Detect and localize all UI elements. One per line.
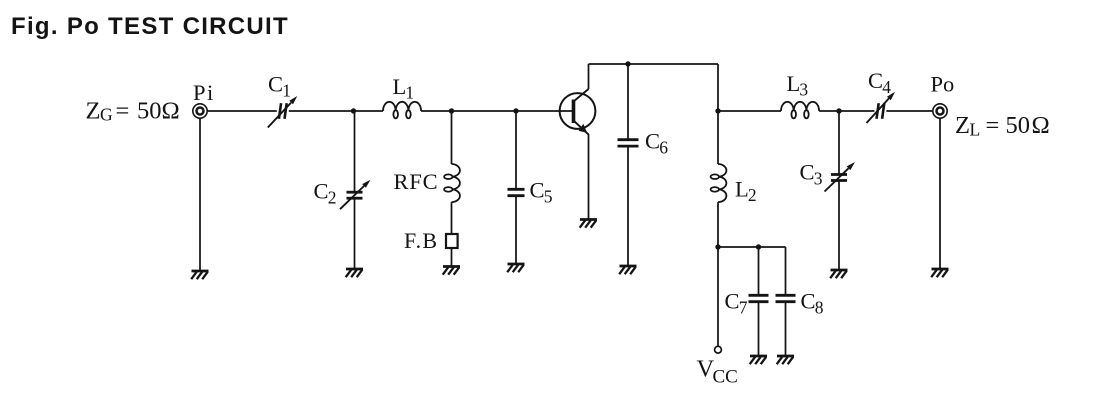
- svg-text:Fig. Po TEST CIRCUIT: Fig. Po TEST CIRCUIT: [11, 13, 289, 40]
- svg-text:L: L: [970, 120, 981, 140]
- svg-text:C: C: [868, 68, 883, 93]
- svg-text:50: 50: [1006, 112, 1031, 139]
- svg-text:3: 3: [814, 169, 823, 189]
- svg-text:C: C: [314, 179, 329, 204]
- svg-text:F.B: F.B: [404, 228, 438, 253]
- svg-text:C: C: [725, 289, 740, 314]
- svg-text:G: G: [100, 105, 113, 125]
- svg-text:C: C: [530, 178, 545, 203]
- svg-text:Ω: Ω: [162, 98, 180, 125]
- svg-text:2: 2: [328, 188, 337, 208]
- svg-text:L: L: [787, 71, 801, 96]
- svg-text:C: C: [268, 72, 283, 97]
- svg-text:C: C: [645, 129, 660, 154]
- svg-text:Ω: Ω: [1032, 112, 1050, 139]
- svg-text:Z: Z: [86, 98, 101, 125]
- svg-text:2: 2: [748, 185, 757, 205]
- svg-text:1: 1: [405, 83, 414, 103]
- svg-text:1: 1: [282, 81, 291, 101]
- svg-text:RFC: RFC: [394, 169, 439, 194]
- svg-text:L: L: [393, 74, 407, 99]
- svg-text:L: L: [735, 177, 749, 202]
- svg-text:Po: Po: [931, 72, 955, 97]
- svg-text:C: C: [801, 289, 816, 314]
- svg-text:CC: CC: [713, 367, 738, 388]
- svg-text:5: 5: [544, 187, 553, 207]
- svg-text:4: 4: [882, 77, 891, 97]
- svg-text:3: 3: [799, 80, 808, 100]
- svg-text:=: =: [116, 98, 130, 125]
- svg-text:Z: Z: [955, 112, 970, 139]
- svg-text:C: C: [800, 160, 815, 185]
- svg-text:6: 6: [659, 138, 668, 158]
- svg-text:=: =: [986, 112, 1000, 139]
- svg-text:8: 8: [815, 298, 824, 318]
- svg-text:50: 50: [137, 98, 162, 125]
- svg-text:Pi: Pi: [193, 80, 215, 105]
- svg-text:7: 7: [739, 298, 748, 318]
